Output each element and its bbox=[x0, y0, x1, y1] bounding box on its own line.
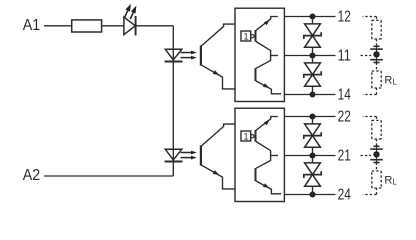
mid node stub U4 bbox=[271, 155, 278, 157]
driver output bubble (U4) bbox=[251, 135, 254, 138]
transistor T1a collector bbox=[256, 42, 271, 56]
phototransistor Q1 base bar bbox=[200, 45, 202, 65]
transistor T1a emitter arrow bbox=[264, 20, 270, 25]
TVS V22 zener bar bbox=[304, 171, 321, 178]
optocoupler U2 light arrow 1 bbox=[181, 152, 193, 154]
wire LED to series node bbox=[136, 25, 173, 27]
TVS V12 zener bar bbox=[304, 71, 321, 78]
dashed wire terminal 12 to load bbox=[363, 16, 377, 18]
transistor T1b emitter arrow bbox=[263, 83, 269, 88]
TVS V21 zener bar bbox=[304, 132, 321, 139]
svg-text:A1: A1 bbox=[23, 17, 40, 34]
dashed wire to supply ch2 bbox=[376, 139, 378, 146]
TVS V11 lower diode bbox=[305, 36, 321, 48]
optocoupler U1 LED triangle bbox=[165, 49, 182, 60]
svg-text:A2: A2 bbox=[23, 167, 40, 184]
optocoupler U1 light arrow 2 bbox=[181, 57, 193, 59]
phototransistor Q2 emitter bbox=[202, 165, 235, 189]
mid node stub U3 bbox=[271, 55, 278, 57]
dashed wire supply to RL ch2 bbox=[376, 163, 378, 172]
phototransistor Q1 emitter arrow bbox=[213, 70, 219, 75]
supply tap lead ch1 bbox=[376, 46, 378, 62]
wire A2 bbox=[44, 175, 173, 177]
series wire A1-A2 vertical bbox=[172, 26, 174, 176]
transistor T1a emitter to terminal bbox=[256, 17, 278, 31]
junction at terminal 21 line bbox=[310, 153, 316, 159]
dashed wire RL to terminal 24 bbox=[376, 188, 378, 195]
transistor T1a base bar bbox=[255, 30, 257, 42]
wire to terminal 21 bbox=[284, 155, 335, 157]
LED D1 emission arrow 2 bbox=[130, 11, 134, 19]
junction at terminal 14 line bbox=[310, 92, 316, 98]
transistor T2a emitter arrow bbox=[264, 120, 270, 125]
TVS V12 upper diode bbox=[305, 63, 321, 75]
supply cell long plate lower ch2 bbox=[370, 159, 383, 161]
supply cell short plate lower ch1 bbox=[373, 62, 379, 64]
TVS V22 upper diode bbox=[305, 163, 321, 175]
phototransistor Q2 collector bbox=[202, 124, 235, 146]
optocoupler U2 light arrow 2 bbox=[181, 157, 193, 159]
load resistor (dashed) ch1 upper bbox=[372, 19, 381, 21]
supply cell long plate lower ch1 bbox=[370, 59, 383, 61]
wire to terminal 14 bbox=[284, 94, 335, 96]
transistor T2a collector bbox=[256, 142, 271, 156]
TVS V11 top lead bbox=[312, 17, 314, 24]
load resistor (dashed) ch2 upper bbox=[372, 119, 381, 121]
svg-text:22: 22 bbox=[338, 108, 351, 125]
driver symbol box 1 (U4) bbox=[241, 131, 251, 141]
wire A1 to resistor bbox=[44, 25, 72, 27]
TVS V21 top lead bbox=[312, 117, 314, 124]
svg-text:24: 24 bbox=[338, 186, 351, 203]
TVS V12 lower diode bbox=[305, 75, 321, 87]
load resistor RL (dashed) ch2 bbox=[372, 170, 381, 172]
dashed wire supply to RL ch1 bbox=[376, 63, 378, 72]
junction at terminal 11 line bbox=[310, 53, 316, 59]
optocoupler U2 LED cathode bar bbox=[165, 161, 183, 163]
transistor T2a emitter to terminal bbox=[256, 117, 278, 131]
transistor T2b collector bbox=[256, 156, 271, 169]
supply cell short plate lower ch2 bbox=[373, 162, 379, 164]
transistor T2b emitter arrow bbox=[263, 183, 269, 188]
TVS V11 zener bar bbox=[304, 32, 321, 39]
svg-text:1: 1 bbox=[243, 32, 248, 43]
svg-text:1: 1 bbox=[243, 132, 248, 143]
resistor R1 bbox=[72, 20, 102, 32]
dashed wire terminal 11 to supply tap bbox=[361, 55, 372, 57]
optocoupler U2 LED triangle bbox=[165, 149, 182, 160]
driver symbol box 1 (U3) bbox=[241, 31, 251, 41]
dashed wire terminal 21 to supply tap bbox=[361, 155, 372, 157]
TVS V12 top lead bbox=[312, 56, 314, 63]
transistor T1b base bar bbox=[255, 68, 257, 81]
junction at terminal 22 line bbox=[310, 114, 316, 120]
load resistor RL (dashed) ch1 bbox=[372, 70, 381, 72]
transistor T2b base bar bbox=[255, 168, 257, 181]
TVS V22 top lead bbox=[312, 156, 314, 163]
supply cell long plate upper ch2 bbox=[370, 148, 383, 150]
supply cell short plate upper ch1 bbox=[373, 45, 379, 47]
LED D1 emission arrow 1 bbox=[125, 9, 129, 17]
svg-text:11: 11 bbox=[338, 47, 351, 64]
wire to terminal 12 bbox=[284, 16, 335, 18]
wire to terminal 24 bbox=[284, 194, 335, 196]
phototransistor Q2 emitter arrow bbox=[213, 170, 219, 175]
wire resistor to LED bbox=[102, 25, 124, 27]
junction at terminal 24 line bbox=[310, 192, 316, 198]
phototransistor Q1 emitter bbox=[202, 65, 235, 89]
driver output bubble (U3) bbox=[251, 35, 254, 38]
TVS V21 bottom lead bbox=[312, 147, 314, 155]
dashed wire to supply ch1 bbox=[376, 39, 378, 46]
TVS V22 bottom lead bbox=[312, 186, 314, 194]
supply center tap ch1 bbox=[373, 51, 379, 57]
TVS V22 lower diode bbox=[305, 175, 321, 187]
LED D1 indicator triangle bbox=[124, 17, 135, 35]
svg-text:21: 21 bbox=[338, 147, 351, 164]
optocoupler U1 LED cathode bar bbox=[165, 61, 183, 63]
transistor T1b collector bbox=[256, 56, 271, 69]
phototransistor Q1 collector bbox=[202, 24, 235, 46]
supply cell long plate upper ch1 bbox=[370, 48, 383, 50]
TVS V12 bottom lead bbox=[312, 86, 314, 94]
transistor T2a base bar bbox=[255, 130, 257, 142]
TVS V11 upper diode bbox=[305, 24, 321, 36]
wire to terminal 22 bbox=[284, 116, 335, 118]
junction at terminal 12 line bbox=[310, 14, 316, 20]
output driver block U4 bbox=[235, 108, 284, 201]
supply cell short plate upper ch2 bbox=[373, 145, 379, 147]
output driver block U3 bbox=[235, 8, 284, 101]
TVS V21 upper diode bbox=[305, 124, 321, 136]
dashed wire RL to terminal 14 bbox=[376, 88, 378, 95]
svg-text:12: 12 bbox=[338, 8, 351, 25]
TVS V11 bottom lead bbox=[312, 47, 314, 55]
TVS V21 lower diode bbox=[305, 136, 321, 148]
phototransistor Q2 base bar bbox=[200, 145, 202, 165]
svg-text:14: 14 bbox=[338, 86, 351, 103]
supply tap lead ch2 bbox=[376, 146, 378, 162]
dashed wire terminal 22 to load bbox=[363, 116, 377, 118]
transistor T1b emitter to terminal bbox=[256, 81, 281, 94]
supply center tap ch2 bbox=[373, 151, 379, 157]
LED D1 cathode bar bbox=[135, 16, 137, 35]
transistor T2b emitter to terminal bbox=[256, 181, 281, 194]
optocoupler U1 light arrow 1 bbox=[181, 52, 193, 54]
wire to terminal 11 bbox=[284, 55, 335, 57]
